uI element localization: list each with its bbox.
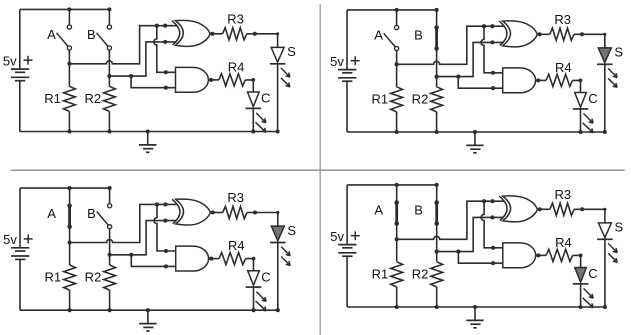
wire: net B branch to AND bottom input P1	[131, 76, 175, 88]
wire: LED S cathode to ground rail P4	[604, 239, 606, 307]
pin dot AND input top P2	[491, 71, 495, 75]
LED S light arrows P1	[281, 68, 290, 87]
svg-text:R1: R1	[44, 270, 61, 285]
switch B (open) P3	[97, 188, 112, 255]
wire: R3 to LED S anode P1	[247, 34, 278, 48]
switch A (closed) P3	[67, 188, 72, 242]
junction R2-rail P1	[107, 129, 111, 133]
wire: R4 to LED C anode P2	[573, 80, 581, 92]
wire: net B to XOR bottom input P3	[110, 221, 177, 255]
switch B (open) P1	[97, 9, 112, 76]
pin dot XOR input top P2	[490, 24, 494, 28]
resistor R2 P2	[431, 77, 443, 132]
junction after R3 P2	[580, 32, 584, 36]
wire: R3 to LED S anode P3	[247, 213, 278, 227]
pin dot AND output P4	[536, 253, 540, 257]
junction top-rail corner above switch B P2	[435, 8, 439, 12]
LED C (off) P3	[246, 271, 262, 287]
wire: R4 to LED C anode P3	[246, 259, 254, 271]
svg-text:S: S	[287, 223, 296, 238]
svg-text:R2: R2	[412, 266, 429, 281]
junction above switch A P4	[395, 183, 399, 187]
pin dot XOR input bottom P2	[490, 40, 494, 44]
junction top-rail corner above switch B P3	[108, 186, 112, 190]
wire: XOR output to R3 P1	[210, 33, 222, 35]
wire: R4 to LED C anode P4	[573, 255, 581, 267]
wire: AND output to R4 P3	[209, 258, 219, 260]
divider: vertical panel separator	[319, 4, 321, 335]
svg-text:R3: R3	[227, 190, 244, 205]
wire: LED C cathode to ground rail P1	[252, 108, 254, 131]
svg-text:B: B	[87, 206, 96, 221]
resistor R3 P3	[223, 206, 247, 218]
label R3 P4	[554, 187, 571, 202]
XOR gate U1 P2	[499, 21, 537, 47]
wire: net B branch to AND bottom input P4	[458, 252, 502, 264]
pin dot XOR output P4	[538, 207, 542, 211]
label 5v P1	[3, 53, 17, 68]
corner dot at R4-C bend P3	[252, 257, 256, 261]
resistor R4 P1	[219, 74, 246, 86]
wire: net A branch to AND top input (hop over XOR-B wire) P3	[154, 204, 176, 251]
svg-text:A: A	[374, 203, 383, 218]
wire: LED S cathode to ground rail P1	[277, 64, 279, 132]
corner dot at R3-S bend P1	[276, 32, 279, 35]
svg-text:B: B	[87, 27, 96, 42]
junction LED S-rail corner P1	[276, 129, 280, 133]
resistor R3 P4	[550, 203, 574, 215]
svg-text:S: S	[614, 45, 623, 60]
svg-text:R2: R2	[412, 91, 429, 106]
label C P3	[261, 269, 270, 284]
junction net B branch P4	[456, 250, 460, 254]
panel 3: A closed, B open	[3, 186, 296, 331]
label S P4	[614, 220, 623, 235]
corner dot at R3-S bend P3	[276, 211, 279, 214]
junction R2-rail P4	[435, 305, 439, 309]
junction net B at switch B P4	[435, 250, 439, 254]
svg-text:B: B	[414, 28, 423, 43]
wire: net B branch to AND bottom input P3	[131, 255, 175, 267]
pin dot XOR input top P1	[163, 24, 167, 28]
corner dot at R4-C bend P4	[579, 254, 583, 258]
svg-text:5v: 5v	[330, 229, 344, 244]
svg-text:5v: 5v	[330, 54, 344, 69]
label 5v P2	[330, 54, 344, 69]
pin dot XOR input bottom P4	[490, 215, 494, 219]
resistor R1 P1	[64, 64, 76, 132]
wire: LED C cathode to ground rail P2	[580, 109, 582, 132]
label S P2	[614, 45, 623, 60]
corner dot at R3-S bend P4	[603, 208, 606, 211]
LED C light arrows P4	[583, 288, 594, 307]
wire: XOR output to R3 P4	[538, 208, 550, 210]
resistor R3 P2	[550, 28, 574, 40]
label R4 P1	[228, 59, 245, 74]
resistor R4 P4	[546, 249, 573, 261]
junction LED S-rail corner P3	[276, 308, 280, 312]
AND gate U2 P2	[503, 68, 536, 93]
ground symbol P3	[139, 308, 156, 331]
junction R1-rail P1	[67, 129, 71, 133]
corner dot at R4-C bend P1	[251, 78, 255, 82]
svg-text:S: S	[614, 220, 623, 235]
label R4 P2	[555, 60, 572, 75]
battery plus sign P4	[351, 231, 360, 240]
label C P1	[261, 91, 270, 106]
svg-text:R1: R1	[371, 91, 388, 106]
junction LED C-rail P3	[251, 308, 255, 312]
label R4 P4	[555, 235, 572, 250]
wire: net A to XOR top input (hop over B wire) P4	[397, 201, 504, 239]
pin dot AND input top P4	[491, 246, 495, 250]
svg-text:5v: 5v	[3, 232, 17, 247]
junction above switch A P2	[395, 8, 399, 12]
pin dot AND input bottom P2	[491, 86, 495, 90]
svg-text:R2: R2	[85, 270, 102, 285]
svg-text:R4: R4	[228, 238, 245, 253]
wire: net A branch to AND top input (hop over XOR-B wire) P4	[481, 201, 503, 248]
junction after R3 P3	[253, 210, 257, 214]
svg-text:R2: R2	[84, 91, 101, 106]
wire: ground bottom rail P3	[20, 309, 278, 311]
junction R2-rail P3	[108, 308, 112, 312]
junction net B branch P2	[456, 75, 460, 79]
label R1 P4	[372, 266, 389, 281]
LED S light arrows P2	[608, 68, 617, 87]
junction net B at switch B P1	[107, 74, 111, 78]
svg-text:R4: R4	[555, 60, 572, 75]
svg-text:C: C	[588, 266, 597, 281]
junction after R3 P4	[580, 207, 584, 211]
switch A (open) P1	[57, 9, 72, 63]
wire: net B to XOR bottom input P1	[109, 42, 176, 76]
wire: net A branch to AND top input (hop over XOR-B wire) P2	[481, 26, 503, 73]
XOR gate U1 P3	[172, 199, 210, 225]
corner dot at R3-S bend P2	[603, 33, 606, 36]
label S P1	[287, 44, 296, 59]
battery V1 5v P2	[338, 10, 356, 132]
wire: XOR output to R3 P2	[537, 33, 549, 35]
pin dot XOR input top P3	[163, 202, 167, 206]
label R3 P2	[554, 12, 571, 27]
svg-text:R4: R4	[228, 59, 245, 74]
label R1 P3	[44, 270, 61, 285]
wire: net B to XOR bottom input P2	[437, 42, 504, 76]
battery plus sign P1	[24, 56, 33, 65]
resistor R2 P1	[104, 76, 116, 131]
AND gate U2 P4	[503, 243, 536, 268]
wire: net A to XOR top input (hop over B wire) P1	[69, 26, 176, 64]
wire: +5V top rail (battery to switches) P4	[347, 184, 437, 186]
svg-text:A: A	[47, 27, 56, 42]
pin dot AND input top P3	[164, 249, 168, 253]
label R2 P4	[412, 266, 429, 281]
pin dot AND output P1	[209, 78, 213, 82]
svg-text:A: A	[374, 28, 383, 43]
junction after R3 P1	[253, 32, 257, 36]
wire: LED C cathode to ground rail P4	[580, 284, 582, 307]
label C P4	[588, 266, 597, 281]
label 5v P3	[3, 232, 17, 247]
battery plus sign P2	[351, 56, 360, 65]
label B P4	[414, 203, 423, 218]
wire: LED S cathode to ground rail P3	[277, 243, 279, 311]
pin dot AND output P3	[209, 257, 213, 261]
resistor R2 P4	[431, 252, 443, 307]
junction net A branch P2	[482, 24, 486, 28]
label A P2	[374, 28, 383, 43]
wire: XOR output to R3 P3	[210, 212, 222, 214]
label A P4	[374, 203, 383, 218]
junction net A at switch A P1	[67, 62, 71, 66]
wire: +5V top rail (battery to switches) P2	[347, 9, 437, 11]
junction above switch A P3	[68, 186, 72, 190]
resistor R3 P1	[223, 28, 247, 40]
wire: AND output to R4 P1	[208, 79, 218, 81]
LED S (lit) P2	[597, 48, 613, 64]
wire: ground bottom rail P1	[20, 131, 278, 133]
svg-text:R3: R3	[554, 12, 571, 27]
battery V1 5v P4	[338, 185, 356, 307]
svg-text:R3: R3	[227, 11, 244, 26]
pin dot AND input top P1	[164, 70, 168, 74]
label R3 P3	[227, 190, 244, 205]
wire: AND output to R4 P4	[536, 254, 546, 256]
junction net A at switch A P4	[395, 237, 399, 241]
resistor R4 P3	[219, 253, 246, 265]
junction net A branch P3	[155, 202, 159, 206]
svg-text:R4: R4	[555, 235, 572, 250]
pin dot AND input bottom P4	[491, 261, 495, 265]
LED C (lit) P4	[573, 268, 589, 284]
wire: LED C cathode to ground rail P3	[253, 287, 255, 310]
junction LED S-rail corner P2	[603, 130, 607, 134]
svg-text:S: S	[287, 44, 296, 59]
svg-text:C: C	[261, 269, 270, 284]
wire: net B branch to AND bottom input P2	[458, 77, 502, 89]
junction net A branch P4	[482, 199, 486, 203]
junction R1-rail P3	[68, 308, 72, 312]
LED C light arrows P3	[256, 292, 267, 311]
ground symbol P4	[466, 305, 483, 328]
svg-text:R1: R1	[372, 266, 389, 281]
junction R2-rail P2	[435, 130, 439, 134]
switch A (open) P2	[384, 10, 399, 64]
corner dot at R4-C bend P2	[579, 79, 583, 83]
label R2 P2	[412, 91, 429, 106]
junction net A at switch A P3	[68, 240, 72, 244]
svg-text:C: C	[588, 91, 597, 106]
LED C light arrows P1	[255, 113, 266, 132]
label R1 P2	[371, 91, 388, 106]
ground symbol P1	[139, 129, 156, 152]
battery plus sign P3	[24, 235, 33, 244]
junction R1-rail P2	[395, 130, 399, 134]
label R1 P1	[44, 91, 61, 106]
junction R1-rail P4	[395, 305, 399, 309]
battery V1 5v P3	[11, 188, 29, 310]
junction LED S-rail corner P4	[603, 305, 607, 309]
pin dot XOR input top P4	[490, 199, 494, 203]
pin dot XOR output P3	[211, 210, 215, 214]
junction net B at switch B P2	[435, 75, 439, 79]
junction above switch A P1	[67, 7, 71, 11]
wire: LED S cathode to ground rail P2	[604, 64, 606, 132]
panel 1: A open, B open	[3, 7, 296, 152]
wire: net A to XOR top input (hop over B wire) P2	[397, 26, 504, 64]
junction net B at switch B P3	[108, 253, 112, 257]
XOR gate U1 P1	[172, 20, 210, 46]
resistor R1 P3	[64, 243, 76, 311]
junction LED C-rail P1	[251, 129, 255, 133]
junction LED C-rail P2	[578, 130, 582, 134]
label A P1	[47, 27, 56, 42]
resistor R2 P3	[104, 255, 116, 310]
wire: R4 to LED C anode P1	[245, 80, 253, 92]
pin dot XOR output P2	[538, 32, 542, 36]
wire: net B to XOR bottom input P4	[437, 217, 504, 251]
label R2 P3	[85, 270, 102, 285]
pin dot XOR input bottom P3	[163, 219, 167, 223]
switch A (closed) P4	[394, 185, 399, 239]
wire: net A branch to AND top input (hop over XOR-B wire) P1	[154, 26, 176, 73]
switch B (closed) P4	[434, 185, 439, 252]
LED S light arrows P3	[281, 247, 290, 266]
pin dot AND output P2	[536, 78, 540, 82]
svg-text:C: C	[261, 91, 270, 106]
junction net A at switch A P2	[395, 62, 399, 66]
wire: R3 to LED S anode P4	[574, 209, 605, 223]
svg-text:R1: R1	[44, 91, 61, 106]
label R3 P1	[227, 11, 244, 26]
label 5v P4	[330, 229, 344, 244]
resistor R1 P4	[391, 239, 403, 307]
pin dot XOR input bottom P1	[163, 40, 167, 44]
svg-text:B: B	[414, 203, 423, 218]
label A P3	[47, 206, 56, 221]
wire: ground bottom rail P2	[347, 131, 605, 133]
wire: +5V top rail (battery to switches) P1	[20, 8, 110, 10]
LED C light arrows P2	[583, 113, 594, 132]
label B P2	[414, 28, 423, 43]
panel 2: A open, B closed	[330, 8, 623, 153]
pin dot AND input bottom P3	[164, 264, 168, 268]
wire: ground bottom rail P4	[347, 306, 605, 308]
svg-text:A: A	[47, 206, 56, 221]
wire: AND output to R4 P2	[536, 79, 546, 81]
divider: horizontal panel separator	[11, 169, 625, 171]
pin dot XOR output P1	[210, 32, 214, 36]
switch B (closed) P2	[434, 10, 439, 77]
junction top-rail corner above switch B P4	[435, 183, 439, 187]
LED S (lit) P3	[270, 226, 286, 242]
AND gate U2 P3	[176, 246, 209, 271]
label B P1	[87, 27, 96, 42]
wire: +5V top rail (battery to switches) P3	[20, 187, 110, 189]
LED S (off) P1	[270, 47, 286, 63]
label R4 P3	[228, 238, 245, 253]
wire: net A to XOR top input (hop over B wire) P3	[70, 204, 177, 242]
LED S light arrows P4	[608, 243, 617, 262]
label R2 P1	[84, 91, 101, 106]
junction net B branch P1	[129, 74, 133, 78]
AND gate U2 P1	[176, 67, 209, 92]
battery V1 5v P1	[11, 9, 29, 131]
junction LED C-rail P4	[579, 305, 583, 309]
resistor R4 P2	[546, 74, 573, 86]
label C P2	[588, 91, 597, 106]
resistor R1 P2	[391, 64, 403, 132]
XOR gate U1 P4	[499, 196, 537, 222]
panel 4: A closed, B closed	[330, 183, 623, 328]
junction net B branch P3	[129, 253, 133, 257]
svg-text:R3: R3	[554, 187, 571, 202]
label B P3	[87, 206, 96, 221]
LED S (off) P4	[597, 223, 613, 239]
pin dot AND input bottom P1	[164, 86, 168, 90]
ground symbol P2	[466, 130, 483, 153]
wire: R3 to LED S anode P2	[574, 34, 605, 48]
label S P3	[287, 223, 296, 238]
LED C (off) P2	[573, 93, 589, 109]
junction net A branch P1	[155, 24, 159, 28]
LED C (off) P1	[246, 92, 262, 108]
svg-text:5v: 5v	[3, 53, 17, 68]
junction top-rail corner above switch B P1	[107, 7, 111, 11]
